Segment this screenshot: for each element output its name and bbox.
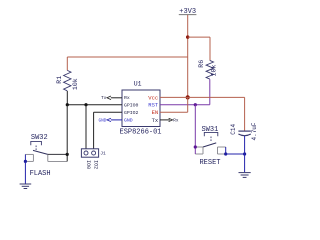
svg-text:IO0: IO0 [85,160,91,169]
svg-text:Tx: Tx [101,96,107,101]
svg-text:R6: R6 [198,60,205,68]
svg-text:RST: RST [148,102,159,109]
svg-text:10k: 10k [210,65,217,77]
svg-text:GND: GND [98,119,106,124]
svg-text:C14: C14 [230,124,237,135]
svg-text:10k: 10k [72,78,79,90]
svg-text:R1: R1 [56,76,63,84]
svg-text:Rx: Rx [124,95,130,101]
svg-text:4.7uF: 4.7uF [251,122,258,140]
svg-text:SW32: SW32 [31,134,48,142]
svg-text:Vcc: Vcc [148,94,158,101]
svg-text:EN: EN [152,109,159,116]
svg-text:ESP8266-01: ESP8266-01 [120,129,162,137]
svg-text:GPIO0: GPIO0 [124,103,139,109]
svg-text:FLASH: FLASH [30,170,51,178]
svg-text:U1: U1 [134,81,142,88]
svg-text:RESET: RESET [199,159,220,167]
svg-text:GND: GND [124,118,133,124]
svg-text:Rx: Rx [173,119,179,124]
svg-text:Tx: Tx [152,117,159,124]
svg-text:IO2: IO2 [93,160,99,169]
svg-text:GPIO2: GPIO2 [124,110,139,116]
svg-text:J1: J1 [100,151,106,157]
